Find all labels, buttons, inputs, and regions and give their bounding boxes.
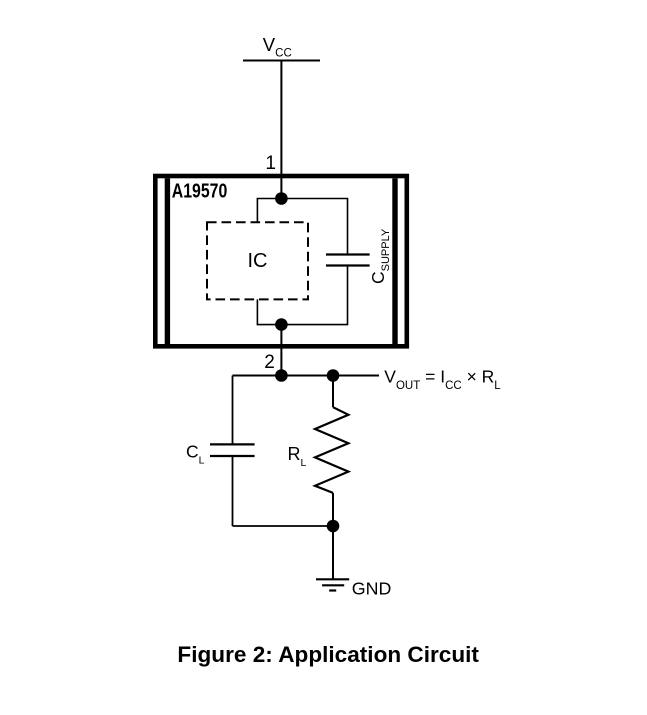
capacitor CL [186,441,255,466]
power symbol VCC [243,34,320,61]
node ground junction [327,520,340,533]
IC package box A19570 [155,176,406,346]
wire resistor to bottom rail [332,493,334,526]
resistor RL [288,407,349,493]
IC dashed block [207,222,308,299]
svg-text:GND: GND [352,578,392,598]
wire VCC to pin 1 [280,61,282,177]
capacitor CSUPPLY [326,228,392,284]
ground symbol [316,578,391,598]
svg-text:IC: IC [248,250,268,272]
wire to ground [332,526,334,579]
wire internal bottom rail [257,266,347,325]
node top (pin1 internal) [275,192,288,205]
wire output node row [233,375,380,377]
wire left branch down to CL [232,376,234,445]
wire pin2 out of box [280,325,282,376]
wire CL to bottom rail [232,456,234,526]
svg-text:2: 2 [264,352,275,373]
wire node to resistor [332,376,334,408]
node pin2 junction [275,369,288,382]
node bottom (pin2 internal) [275,318,288,331]
node RL junction [327,369,340,382]
wire internal top rail [257,199,347,255]
svg-text:1: 1 [265,153,276,174]
wire bottom rail [233,525,334,527]
svg-text:A19570: A19570 [172,181,228,203]
wire pin1 into box [280,176,282,199]
svg-text:Figure 2: Application Circuit: Figure 2: Application Circuit [177,642,479,667]
